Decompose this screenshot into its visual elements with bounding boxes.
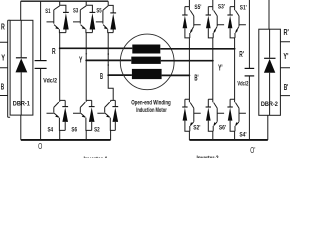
node B' junction [189,75,191,77]
svg-text:R': R' [239,50,244,59]
phase line B' from motor [162,74,190,76]
svg-text:Y: Y [79,55,83,64]
svg-text:Vdc/2: Vdc/2 [237,80,248,87]
3-phase source terminal block right (R',Y',B' cells) [280,42,290,96]
svg-text:Inverter-1: Inverter-1 [84,156,108,158]
svg-text:Open-end Winding: Open-end Winding [131,100,171,106]
svg-text:S3: S3 [73,9,79,15]
svg-text:S3': S3' [218,5,225,11]
node B junction [107,74,109,76]
svg-text:O': O' [250,145,255,155]
leg wire S1'-S4' [234,38,236,99]
switch S2 [97,100,118,130]
crossing nub leg3/Y line [108,64,110,66]
DC-link wire left (cap branch) [40,1,42,140]
svg-text:R': R' [284,28,289,37]
leg wire S1-S4 (phase R pole) [59,33,61,101]
switch S2' [182,99,201,131]
phase line R to motor [60,47,133,49]
switch S3 [73,1,95,32]
leg wire S3-S6 (phase Y pole) [85,33,87,101]
switch S4' [227,99,246,131]
3-phase source terminal block left (R,Y,B cells) [0,20,10,117]
node Y' junction [212,60,214,62]
node R' junction [234,48,236,50]
switch S6 [73,100,95,130]
wire DBR-1 bottom to -bus [20,115,22,140]
leg wire S5'-S2' [188,38,190,99]
node Y junction [85,60,87,62]
svg-text:S2: S2 [94,128,100,134]
leg wire S6 to bus [85,130,87,140]
diode D2 inside DBR-2 [264,29,276,115]
motor winding bar Y [131,57,161,64]
svg-text:S2': S2' [193,125,201,131]
svg-text:Y': Y' [283,52,288,61]
switch S5 [96,1,116,32]
svg-text:B': B' [284,83,289,92]
wire DBR-2 bottom to -bus [267,115,269,140]
switch S1 (IGBT + antiparallel diode) [47,1,69,32]
svg-text:Y': Y' [218,64,222,73]
leg wire S3'-S6' [212,38,214,99]
motor stator circle [120,34,174,90]
switch S5' (diode left, IGBT right) [182,0,201,38]
svg-text:S5': S5' [194,5,201,11]
svg-text:R: R [52,47,56,56]
diode D1 inside DBR-1 [16,20,28,115]
leg wire S6' to bus [212,131,214,140]
capacitor C1 [35,61,47,69]
svg-text:Inverter-2: Inverter-2 [197,155,219,158]
switch S1' [227,0,246,38]
switch S4 [47,100,69,130]
bottom DC bus left (-) [21,139,111,141]
DC-link wire right (cap branch) [248,0,250,140]
svg-text:Y: Y [1,54,5,63]
bottom DC bus right (-) [189,139,267,141]
svg-text:B: B [100,72,103,81]
svg-text:S6: S6 [71,128,77,134]
phase line B to motor [108,74,132,76]
rectifier DBR-2 box [259,29,281,115]
svg-text:DBR-2: DBR-2 [261,101,278,108]
phase line Y to motor [86,59,131,61]
phase line R' from motor [160,48,234,50]
leg wire S4 to bus [59,130,61,140]
svg-text:S4': S4' [239,133,247,139]
crossing nub leg3/R line [108,53,110,55]
svg-text:O: O [38,141,42,151]
wire DBR-2 top to +bus [268,0,270,29]
phase line Y' from motor [161,60,213,62]
switch S3' [206,0,225,38]
top DC bus left (+) [21,0,109,2]
capacitor C2 [245,68,255,76]
leg wire S5-S2 (phase B pole, jogged) [108,33,113,101]
svg-text:R: R [1,23,5,32]
switch S6' [206,99,225,131]
svg-text:Vdc/2: Vdc/2 [43,77,57,84]
svg-text:B': B' [194,73,198,82]
motor winding bar R [132,45,160,54]
rectifier DBR-1 box [10,20,33,115]
node R junction [59,47,61,49]
motor winding bar B [132,69,162,79]
svg-text:S1: S1 [45,9,51,15]
svg-text:S4: S4 [48,128,54,134]
leg wire S2' to bus [188,131,190,140]
svg-text:DBR-1: DBR-1 [13,101,30,108]
svg-text:S5: S5 [96,9,102,15]
svg-text:B: B [1,83,5,92]
leg wire S4' to bus [234,131,236,140]
wire DBR-1 top to +bus [20,1,22,20]
svg-text:S1': S1' [240,6,247,12]
crossing nub leg2/R line [86,53,88,55]
leg wire S2 to bus [110,130,112,140]
svg-text:S6': S6' [219,126,227,132]
top DC bus right (+) [185,0,269,1]
svg-text:Induction Motor: Induction Motor [136,108,167,114]
